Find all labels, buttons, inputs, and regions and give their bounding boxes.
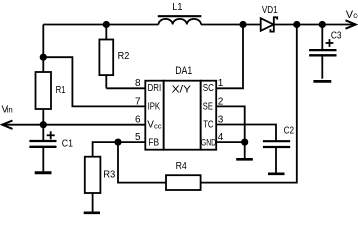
- svg-text:C2: C2: [284, 125, 295, 136]
- svg-text:DA1: DA1: [175, 65, 192, 77]
- svg-text:VD1: VD1: [262, 5, 278, 16]
- svg-text:L1: L1: [172, 2, 183, 13]
- wire R1 bottom to Vin rail: [42, 109, 44, 125]
- wire Vin rail: [2, 124, 145, 126]
- wire pin1 SC to top rail: [216, 25, 243, 89]
- svg-text:SC: SC: [203, 83, 214, 94]
- Vcc output arrow head: [346, 20, 356, 28]
- resistor R2: [99, 25, 145, 89]
- node dot (pin4 ground): [241, 139, 248, 146]
- op IC DA1 boxes: [145, 81, 216, 150]
- wire branch node A to pin7 IPK: [43, 57, 145, 106]
- svg-text:R1: R1: [56, 85, 66, 96]
- ground (C1): [35, 171, 52, 174]
- diode VD1 (Schottky): [261, 17, 278, 31]
- svg-text:FB: FB: [148, 138, 159, 149]
- svg-text:R2: R2: [118, 51, 130, 62]
- wire pin5 FB to divider node: [118, 141, 145, 143]
- wire top rail right segment (VD1 to Vcc arrow): [274, 24, 356, 26]
- ground (pin4/SE node): [236, 142, 253, 159]
- resistor R3: [85, 157, 101, 193]
- svg-text:C1: C1: [62, 138, 74, 149]
- node dot (pin1 riser): [239, 21, 246, 28]
- svg-text:C3: C3: [331, 30, 342, 41]
- svg-text:2: 2: [218, 96, 224, 107]
- svg-text:R3: R3: [103, 170, 116, 181]
- wire pin4 GND to node: [216, 141, 245, 143]
- svg-text:TC: TC: [203, 120, 213, 131]
- svg-text:R4: R4: [176, 161, 188, 172]
- node dot (R1 top branch): [40, 54, 47, 61]
- svg-text:7: 7: [135, 96, 141, 107]
- ground (R3): [84, 212, 100, 215]
- svg-text:X/Y: X/Y: [172, 85, 192, 96]
- ground (C3): [313, 80, 331, 83]
- wire top rail left segment: [43, 24, 158, 26]
- Vin input arrow head: [2, 121, 12, 129]
- svg-text:3: 3: [218, 114, 224, 125]
- wire pin3 TC to C2: [216, 125, 276, 142]
- svg-text:DRI: DRI: [148, 83, 162, 94]
- svg-text:4: 4: [218, 132, 224, 143]
- wire R4 to output rail: [201, 25, 297, 183]
- resistor R4: [166, 175, 201, 190]
- svg-text:8: 8: [135, 78, 141, 89]
- node dot (C3 top): [319, 21, 326, 28]
- wire left vertical from top rail to R1: [42, 25, 44, 73]
- svg-text:6: 6: [135, 114, 141, 125]
- node dot (FB divider): [114, 139, 121, 146]
- capacitor C1 (polarized): [29, 125, 56, 172]
- node dot (R4 riser): [293, 21, 300, 28]
- capacitor C2: [263, 141, 290, 172]
- svg-text:IPK: IPK: [148, 102, 161, 113]
- wire FB node to R3: [93, 142, 118, 157]
- svg-text:5: 5: [135, 132, 141, 143]
- node dot (Vin rail / R1 / C1): [40, 121, 47, 128]
- wire top rail middle segment (L1 to VD1): [201, 24, 261, 26]
- wire R3 bottom: [92, 193, 94, 212]
- ground (C2): [268, 173, 285, 176]
- capacitor C3 (polarized): [309, 25, 336, 79]
- wire pin2 SE down to ground node: [216, 106, 245, 142]
- svg-text:Vin: Vin: [2, 105, 13, 116]
- resistor R1: [36, 72, 52, 109]
- svg-text:1: 1: [218, 78, 224, 89]
- svg-text:Vcc: Vcc: [147, 120, 161, 131]
- wire FB node down to R4: [118, 142, 166, 183]
- node dot (R2 top): [103, 21, 110, 28]
- svg-text:Vcc: Vcc: [346, 9, 358, 21]
- svg-text:SE: SE: [203, 102, 213, 113]
- svg-text:GND: GND: [201, 138, 217, 148]
- inductor L1: [158, 16, 202, 24]
